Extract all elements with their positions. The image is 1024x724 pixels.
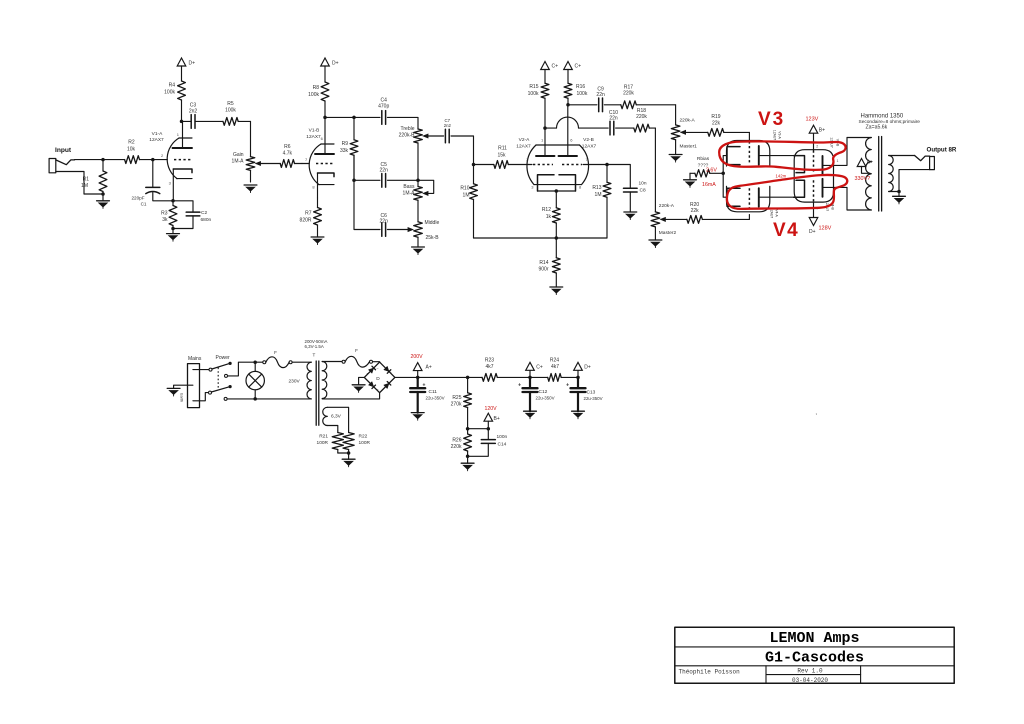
power flag A+ <box>857 159 873 167</box>
svg-text:330V?: 330V? <box>855 176 871 182</box>
svg-text:R26: R26 <box>452 438 461 444</box>
svg-text:6,3V-1.5A: 6,3V-1.5A <box>305 344 324 349</box>
resistor R5 <box>195 101 251 125</box>
wire <box>487 429 489 440</box>
wire pin N <box>193 393 209 401</box>
wire <box>451 136 474 165</box>
wire <box>683 131 708 133</box>
resistor R20 <box>687 202 750 223</box>
svg-text:1: 1 <box>541 138 544 143</box>
ground <box>412 247 425 255</box>
svg-text:220k-A: 220k-A <box>659 203 675 209</box>
resistor R26 <box>451 429 472 457</box>
svg-text:470p: 470p <box>378 104 389 110</box>
svg-text:2n2: 2n2 <box>189 109 198 115</box>
svg-text:1: 1 <box>177 132 180 137</box>
svg-text:C+: C+ <box>536 364 543 370</box>
junction <box>171 199 175 203</box>
ground <box>572 411 585 419</box>
svg-text:V2-A: V2-A <box>519 137 530 143</box>
ground <box>411 413 424 421</box>
svg-text:123V: 123V <box>806 117 819 123</box>
svg-text:22k: 22k <box>712 121 721 127</box>
wire <box>468 428 489 430</box>
svg-text:03-04-2020: 03-04-2020 <box>792 677 828 684</box>
svg-text:Treble: Treble <box>401 126 415 132</box>
svg-text:R25: R25 <box>452 395 461 401</box>
capacitor C4 <box>378 98 389 125</box>
svg-text:R7: R7 <box>305 211 312 217</box>
wire <box>327 407 348 431</box>
resistor R12 <box>542 191 560 238</box>
resistor R15 <box>528 70 549 129</box>
svg-text:A+: A+ <box>867 160 873 166</box>
wire <box>354 179 380 181</box>
wire <box>529 392 531 411</box>
wire <box>468 443 489 456</box>
wire <box>748 215 750 220</box>
svg-text:+: + <box>518 383 521 389</box>
transformer OT core <box>878 137 880 212</box>
wire <box>354 116 380 118</box>
transformer T1 primary <box>307 362 311 399</box>
svg-text:7: 7 <box>305 157 308 162</box>
svg-text:Gain: Gain <box>233 152 244 158</box>
svg-text:100k: 100k <box>225 108 236 114</box>
wire <box>748 132 750 141</box>
junction <box>466 455 470 459</box>
svg-text:D: D <box>376 376 380 382</box>
triode V2-A <box>516 128 554 191</box>
svg-text:100n: 100n <box>497 434 508 440</box>
wire <box>889 191 899 193</box>
svg-text:220k-A: 220k-A <box>680 118 696 124</box>
capacitor C10 <box>609 110 618 135</box>
junction <box>472 163 476 167</box>
svg-text:12AX7: 12AX7 <box>306 134 321 140</box>
wire <box>173 201 193 212</box>
potentiometer Middle <box>408 220 440 247</box>
capacitor C1 <box>131 187 159 206</box>
fuse F2 <box>342 348 372 367</box>
svg-text:22n: 22n <box>596 92 605 98</box>
ground <box>311 237 324 245</box>
transformer OT primary <box>866 138 872 210</box>
svg-text:6,3V: 6,3V <box>331 414 342 420</box>
svg-text:F: F <box>355 348 358 353</box>
ground <box>684 180 697 188</box>
svg-text:2n2: 2n2 <box>444 123 452 128</box>
bridge rectifier D <box>364 362 395 393</box>
ground <box>649 240 662 248</box>
svg-text:4.7k: 4.7k <box>283 151 293 157</box>
power flag D+ <box>177 58 195 67</box>
svg-text:Master2: Master2 <box>659 230 677 236</box>
junction <box>352 179 356 183</box>
power flag C+ <box>564 62 581 70</box>
wire <box>654 128 656 212</box>
svg-text:4k7: 4k7 <box>485 364 493 370</box>
svg-text:Bass: Bass <box>403 184 415 190</box>
wire <box>338 452 349 454</box>
resistor R8 <box>308 66 329 117</box>
svg-text:1: 1 <box>837 159 839 163</box>
svg-text:V4-A: V4-A <box>774 209 778 217</box>
capacitor C13 <box>566 383 603 402</box>
wire <box>327 426 338 432</box>
transformer T1 core <box>315 361 317 425</box>
svg-text:C+: C+ <box>552 64 559 70</box>
resistor R13 <box>592 165 611 239</box>
wire <box>529 370 531 377</box>
svg-text:R10: R10 <box>460 186 469 192</box>
wire <box>662 218 687 220</box>
junction <box>347 451 351 455</box>
capacitor C7 <box>444 118 452 143</box>
svg-text:230V: 230V <box>289 379 301 385</box>
junction <box>555 236 559 240</box>
wire <box>359 377 365 384</box>
capacitor C8 <box>624 181 647 194</box>
capacitor C9 <box>596 87 605 112</box>
svg-text:R24: R24 <box>550 358 559 364</box>
wire <box>387 117 418 129</box>
svg-text:22u-350V: 22u-350V <box>584 396 603 401</box>
junction <box>528 376 532 380</box>
power triode V3-B <box>794 133 872 176</box>
capacitor C5 <box>380 162 389 187</box>
svg-text:Mains: Mains <box>188 356 202 362</box>
svg-text:3: 3 <box>169 181 172 186</box>
svg-text:1M-A: 1M-A <box>403 191 416 197</box>
junction <box>466 427 470 431</box>
capacitor C11 <box>410 383 444 401</box>
svg-text:22n: 22n <box>380 218 389 224</box>
power flag C+ <box>541 62 558 70</box>
svg-text:R11: R11 <box>498 146 507 152</box>
power triode V4-B <box>794 177 872 218</box>
wire <box>538 190 576 192</box>
wire <box>607 165 630 189</box>
svg-text:33k: 33k <box>340 148 349 154</box>
label Hammond <box>859 114 921 131</box>
wire <box>577 377 579 388</box>
svg-text:220k: 220k <box>623 91 634 97</box>
svg-text:R9: R9 <box>342 141 349 147</box>
ground <box>352 385 365 393</box>
wire <box>487 421 489 429</box>
svg-text:120V: 120V <box>485 406 498 412</box>
junction <box>721 172 725 176</box>
svg-text:R4: R4 <box>169 83 176 89</box>
svg-text:2: 2 <box>526 157 529 162</box>
svg-text:12AX7: 12AX7 <box>582 144 597 150</box>
svg-text:1M-A: 1M-A <box>232 159 245 165</box>
svg-text:F: F <box>274 350 277 355</box>
ground <box>893 196 906 204</box>
wire <box>387 179 418 181</box>
potentiometer Bass <box>403 180 429 222</box>
junction <box>253 397 257 401</box>
svg-text:C8: C8 <box>640 188 646 194</box>
wire <box>152 160 154 187</box>
svg-text:V1-B: V1-B <box>309 128 320 134</box>
resistor Rbias <box>690 156 723 177</box>
junction <box>897 190 901 194</box>
wire <box>172 229 174 234</box>
svg-text:2,6V: 2,6V <box>706 168 717 174</box>
svg-text:R12: R12 <box>542 207 551 213</box>
svg-text:100k: 100k <box>577 91 588 97</box>
wire <box>255 361 263 363</box>
junction <box>323 116 327 120</box>
svg-text:R1: R1 <box>83 177 90 183</box>
svg-text:220pF: 220pF <box>131 196 144 201</box>
wire <box>568 104 597 106</box>
triode V1-A <box>149 121 192 200</box>
connector output jack <box>899 156 934 192</box>
svg-text:220k-B: 220k-B <box>399 133 416 139</box>
wire <box>395 376 418 378</box>
title block frame <box>675 627 954 683</box>
ground <box>97 201 110 209</box>
ground <box>244 185 257 193</box>
svg-text:15k: 15k <box>497 153 506 159</box>
resistor R24 <box>530 358 578 382</box>
wire <box>182 120 192 122</box>
svg-text:Rbias: Rbias <box>697 156 710 162</box>
svg-text:V4: V4 <box>773 220 799 241</box>
red loop V4 <box>727 175 847 209</box>
svg-text:10k: 10k <box>127 147 136 153</box>
capacitor C12 <box>518 383 555 401</box>
capacitor C3 <box>189 103 198 129</box>
svg-text:3: 3 <box>531 185 534 190</box>
wire <box>467 456 469 463</box>
svg-text:100k: 100k <box>164 90 175 96</box>
svg-text:G1-Cascodes: G1-Cascodes <box>765 650 864 667</box>
svg-text:22u-350V: 22u-350V <box>426 396 445 401</box>
svg-text:22u-350V: 22u-350V <box>536 396 555 401</box>
wire <box>898 192 900 197</box>
capacitor C6 <box>380 213 389 236</box>
resistor R25 <box>451 377 472 428</box>
wire <box>417 377 419 388</box>
svg-text:100R: 100R <box>317 440 329 446</box>
svg-text:8: 8 <box>579 185 582 190</box>
wire <box>325 116 354 118</box>
svg-text:+: + <box>566 383 569 389</box>
wire <box>227 398 255 400</box>
svg-text:22n: 22n <box>380 168 389 174</box>
red loop V3 <box>719 141 845 170</box>
wire <box>545 127 557 129</box>
ground <box>550 287 563 295</box>
svg-text:Output 8R: Output 8R <box>927 147 957 154</box>
svg-text:Earth: Earth <box>180 393 184 402</box>
ground <box>524 411 537 419</box>
resistor R19 <box>708 114 750 136</box>
power flag B+ <box>809 125 825 133</box>
wire <box>417 392 419 413</box>
transformer T1 HV secondary <box>322 362 327 399</box>
svg-text:R15: R15 <box>529 84 538 90</box>
wire <box>228 362 256 376</box>
wire <box>354 180 380 229</box>
wire <box>579 127 609 129</box>
junction <box>352 116 356 120</box>
svg-text:270k: 270k <box>451 402 462 408</box>
triode V2-B <box>559 105 608 191</box>
wire <box>577 370 579 377</box>
resistor R11 <box>474 146 529 169</box>
ground <box>624 212 637 220</box>
resistor R6 <box>280 144 302 167</box>
svg-text:25k-B: 25k-B <box>426 235 440 241</box>
resistor R16 <box>564 70 588 105</box>
potentiometer Treble <box>399 126 428 180</box>
svg-text:C+: C+ <box>575 64 582 70</box>
wire <box>322 393 379 399</box>
svg-text:Hammond 1350: Hammond 1350 <box>861 114 904 120</box>
svg-text:R3: R3 <box>161 211 168 217</box>
resistor R10 <box>460 165 477 239</box>
svg-text:R14: R14 <box>539 260 548 266</box>
transformer T1 heater winding <box>323 407 328 425</box>
svg-text:R6: R6 <box>284 144 291 150</box>
power flag D+ <box>321 58 339 67</box>
junction <box>416 376 420 380</box>
wire <box>75 159 104 161</box>
svg-text:820R: 820R <box>300 218 312 224</box>
resistor R9 <box>340 117 358 180</box>
svg-text:Za=a5.6k: Za=a5.6k <box>866 125 888 131</box>
wire <box>862 167 870 174</box>
svg-text:12AX7: 12AX7 <box>516 144 531 150</box>
svg-text:6: 6 <box>570 138 573 143</box>
svg-text:D+: D+ <box>189 61 196 67</box>
svg-text:680n: 680n <box>201 217 212 223</box>
svg-text:Master1: Master1 <box>680 144 698 150</box>
svg-text:V1-A: V1-A <box>152 131 163 137</box>
wire <box>322 361 342 363</box>
svg-text:Middle: Middle <box>425 220 440 226</box>
junction <box>253 360 257 364</box>
resistor R14 <box>538 238 560 287</box>
wire <box>173 216 193 229</box>
resistor R3 <box>161 201 177 229</box>
wire pin E <box>174 385 193 388</box>
junction <box>180 120 184 124</box>
svg-text:R23: R23 <box>485 358 494 364</box>
svg-text:Rev 1.0: Rev 1.0 <box>797 668 823 675</box>
earth ground <box>167 388 180 396</box>
wire <box>629 192 631 212</box>
resistor R7 <box>300 198 322 237</box>
wire <box>889 155 915 157</box>
svg-text:R21: R21 <box>319 434 328 440</box>
switch SW1 Power <box>209 362 232 401</box>
svg-text:R8: R8 <box>313 85 320 91</box>
svg-text:R16: R16 <box>576 84 585 90</box>
svg-text:B+: B+ <box>494 416 500 422</box>
svg-text:1M: 1M <box>463 193 470 199</box>
svg-text:1M: 1M <box>595 192 602 198</box>
resistor R23 <box>468 358 530 382</box>
wire <box>102 194 104 201</box>
junction <box>101 158 105 162</box>
junction <box>101 192 105 196</box>
potentiometer Gain <box>232 152 261 182</box>
wire <box>675 105 677 125</box>
svg-text:D+: D+ <box>584 364 591 370</box>
junction <box>576 376 580 380</box>
svg-text:200V: 200V <box>411 354 424 360</box>
svg-text:LEMON Amps: LEMON Amps <box>769 630 859 647</box>
svg-text:Théophile Poisson: Théophile Poisson <box>679 669 741 676</box>
wire <box>577 392 579 411</box>
wire <box>258 163 281 165</box>
wire <box>255 398 311 400</box>
svg-text:8: 8 <box>312 184 315 189</box>
wire <box>153 193 173 201</box>
ground <box>342 459 355 467</box>
svg-text:C2: C2 <box>201 210 207 216</box>
svg-text:C14: C14 <box>498 442 507 448</box>
wire <box>689 173 691 180</box>
svg-text:100k: 100k <box>528 91 539 97</box>
svg-text:1M: 1M <box>81 183 88 189</box>
power flag D+ <box>574 362 591 370</box>
svg-text:+: + <box>389 370 392 375</box>
wire <box>529 377 531 388</box>
tube V2 envelope <box>527 145 589 185</box>
svg-text:16mA: 16mA <box>702 182 716 188</box>
power flag A+ <box>413 363 431 371</box>
wire <box>418 180 434 193</box>
wire <box>418 376 468 378</box>
svg-text:+: + <box>423 383 426 389</box>
svg-text:12AX7: 12AX7 <box>149 137 164 143</box>
svg-text:22n: 22n <box>609 116 618 122</box>
svg-text:R2: R2 <box>128 140 135 146</box>
wire <box>348 453 350 459</box>
wire crossover hop <box>557 117 579 128</box>
junction <box>566 103 570 107</box>
resistor R2 <box>103 140 153 164</box>
wire <box>474 237 608 239</box>
svg-text:100R: 100R <box>359 440 371 446</box>
resistor R18 <box>616 108 656 132</box>
wire <box>292 361 311 363</box>
svg-text:220k: 220k <box>451 444 462 450</box>
resistor R4 <box>164 66 185 121</box>
svg-text:2: 2 <box>816 145 818 149</box>
power triode V4-A <box>723 173 794 218</box>
resistor R17 <box>604 85 675 109</box>
wire <box>250 121 252 156</box>
svg-text:C1: C1 <box>141 202 147 207</box>
svg-text:D+: D+ <box>809 229 816 235</box>
power flag C+ <box>526 362 543 370</box>
svg-text:T: T <box>313 353 316 358</box>
svg-text:10n: 10n <box>639 181 647 187</box>
svg-text:R22: R22 <box>359 434 368 440</box>
resistor R21 <box>317 431 344 453</box>
wire <box>84 193 103 195</box>
transformer OT secondary <box>889 156 894 192</box>
potentiometer Master1 <box>671 118 697 155</box>
